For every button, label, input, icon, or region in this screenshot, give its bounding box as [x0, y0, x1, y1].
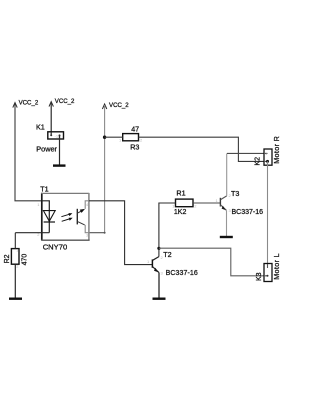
resistor R3 [119, 124, 143, 151]
LED diode triangle [43, 211, 55, 222]
T1 box bottom edge [41, 239, 89, 241]
svg-text:K3: K3 [256, 272, 263, 281]
wire: R3 to K2 pin 2 [139, 137, 268, 161]
T3 collector lead [221, 196, 227, 200]
wire: collector to bottom-right pin [85, 225, 89, 233]
T3 emitter lead [221, 205, 227, 210]
wire: emitter to top-right pin [85, 201, 89, 209]
svg-text:T2: T2 [163, 250, 171, 259]
svg-text:R3: R3 [130, 143, 139, 152]
phototransistor collector (down) [77, 221, 84, 225]
svg-text:Motor L: Motor L [272, 253, 281, 280]
resistor R2 [4, 248, 28, 269]
svg-text:T1: T1 [40, 184, 48, 193]
svg-text:1K2: 1K2 [174, 209, 187, 216]
T1 box top edge [41, 192, 89, 194]
ground (K1) [53, 164, 66, 166]
svg-text:VCC_2: VCC_2 [55, 98, 75, 105]
T2 emitter arrowhead [154, 268, 158, 273]
connector K1 [36, 122, 64, 153]
svg-text:VCC_2: VCC_2 [109, 102, 129, 109]
wire: K2 pin 2 down to K3 pin 1 [267, 161, 269, 268]
light arrow lower [62, 219, 70, 221]
ground (R2) [9, 298, 22, 300]
power flag VCC_2 (left) [13, 100, 39, 108]
wire: VCC_2 left rail to T1 anode pin [15, 104, 42, 201]
T2 base bar [151, 259, 153, 267]
T2 emitter lead [153, 267, 159, 273]
wire: R1 to T3 base [193, 202, 220, 204]
power flag VCC_2 (center rail) [102, 102, 129, 109]
power flag VCC_2 (K1) [49, 98, 75, 107]
svg-text:T3: T3 [231, 189, 239, 198]
svg-text:BC337-16: BC337-16 [232, 209, 264, 216]
T1 box right edge [88, 193, 90, 240]
svg-text:K1: K1 [36, 122, 45, 131]
wire: T1 cathode to R2 [15, 233, 49, 249]
wire: T3 emitter to ground [226, 210, 228, 236]
T1 box left edge [41, 193, 43, 240]
optocoupler T1 (CNY70) [37, 184, 89, 251]
svg-text:BC337-16: BC337-16 [166, 270, 198, 277]
svg-text:Motor R: Motor R [272, 136, 281, 164]
LED cathode bar [44, 221, 55, 223]
svg-text:CNY70: CNY70 [43, 243, 67, 252]
wire: T3 collector to K2 pin 1 [226, 153, 228, 196]
svg-text:R2: R2 [4, 254, 11, 263]
wire: T1 emitter to T2 base [89, 201, 152, 265]
svg-text:R1: R1 [176, 188, 185, 197]
resistor R1 [172, 188, 197, 216]
wire: VCC_2 center rail down to T1 collector pin [104, 105, 106, 233]
wire: K1 pin 2 to ground [59, 135, 61, 164]
phototransistor emitter (up) [77, 211, 81, 213]
svg-text:47: 47 [131, 124, 139, 133]
connector K3 [256, 253, 281, 282]
T2 collector lead [153, 257, 159, 261]
phototransistor base bar [76, 209, 78, 225]
svg-text:Power: Power [36, 144, 57, 153]
T3 base bar [219, 198, 221, 207]
node: junction T2 collector / motor L branch [157, 247, 160, 250]
transistor T3 (BC337-16) [216, 189, 264, 216]
light arrow upper [61, 214, 69, 216]
wire: VCC_2 to K1 pin 1 [50, 103, 52, 136]
ground (T2) [153, 298, 166, 300]
wire: R2 to ground [14, 264, 16, 298]
transistor T2 (BC337-16) [147, 250, 198, 277]
ground (T3) [220, 236, 233, 238]
wire: junction to K3 pin 2 [159, 248, 268, 276]
connector K2 [254, 136, 281, 166]
svg-text:K2: K2 [254, 157, 261, 166]
wire: LED internal loop [42, 201, 50, 233]
wire: T2 emitter to ground [158, 273, 160, 298]
svg-text:VCC_2: VCC_2 [19, 100, 39, 107]
wire: T2 collector up to R1 [159, 203, 176, 257]
svg-text:470: 470 [21, 254, 28, 266]
node: junction VCC rail / R3 [103, 136, 106, 139]
T3 emitter arrowhead [222, 206, 226, 210]
wire: VCC rail to R3 [105, 136, 123, 138]
